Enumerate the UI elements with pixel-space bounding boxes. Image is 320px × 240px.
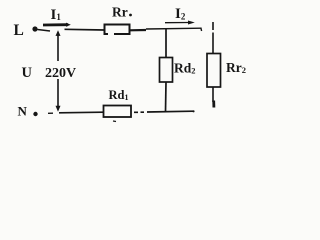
blob at bottom lead of Rr2 — [212, 101, 215, 108]
svg-text:Rr: Rr — [112, 5, 128, 20]
bottom wire to Rd1 — [59, 111, 103, 114]
resistor Rd1 — [104, 106, 132, 118]
svg-text:U: U — [22, 65, 33, 81]
node N — [33, 112, 37, 116]
current arrow I1 — [43, 23, 71, 27]
tick below Rd1 — [113, 120, 116, 123]
wire to right end — [146, 27, 201, 30]
wire to resistor Rr1 — [65, 28, 105, 31]
svg-text:L: L — [14, 22, 24, 39]
resistor Rr2 — [207, 54, 221, 88]
svg-text:N: N — [18, 104, 28, 119]
wire dash left of U arrow — [48, 112, 53, 114]
resistor Rr1 — [105, 25, 130, 35]
wire from Rr1 (thick part) — [130, 29, 147, 31]
dashes after Rd1 — [134, 111, 144, 113]
wire: bottom lead of Rr2 — [212, 87, 214, 102]
end tick of top wire — [200, 28, 203, 32]
wire from node L — [38, 30, 51, 32]
end dot of bottom wire — [192, 110, 194, 112]
resistor Rd2 — [160, 58, 173, 83]
svg-text:220V: 220V — [45, 66, 76, 81]
bottom wire to right end — [147, 110, 193, 113]
node L — [32, 26, 37, 31]
wire: top lead of Rr2 — [212, 22, 214, 53]
subscript dot of Rr1 — [129, 14, 132, 17]
wire: branch down to Rd2 — [165, 29, 167, 57]
current arrow I2 — [165, 21, 195, 25]
voltage arrow U (double-headed) — [56, 30, 61, 112]
wire: Rd2 to bottom wire — [165, 82, 168, 112]
